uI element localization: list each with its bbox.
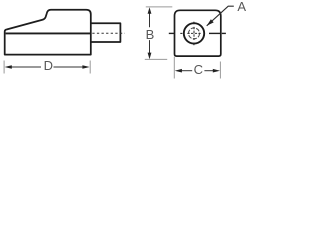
svg-text:D: D — [44, 58, 53, 73]
svg-text:A: A — [237, 0, 246, 14]
svg-text:B: B — [146, 27, 155, 42]
svg-text:C: C — [194, 62, 203, 77]
